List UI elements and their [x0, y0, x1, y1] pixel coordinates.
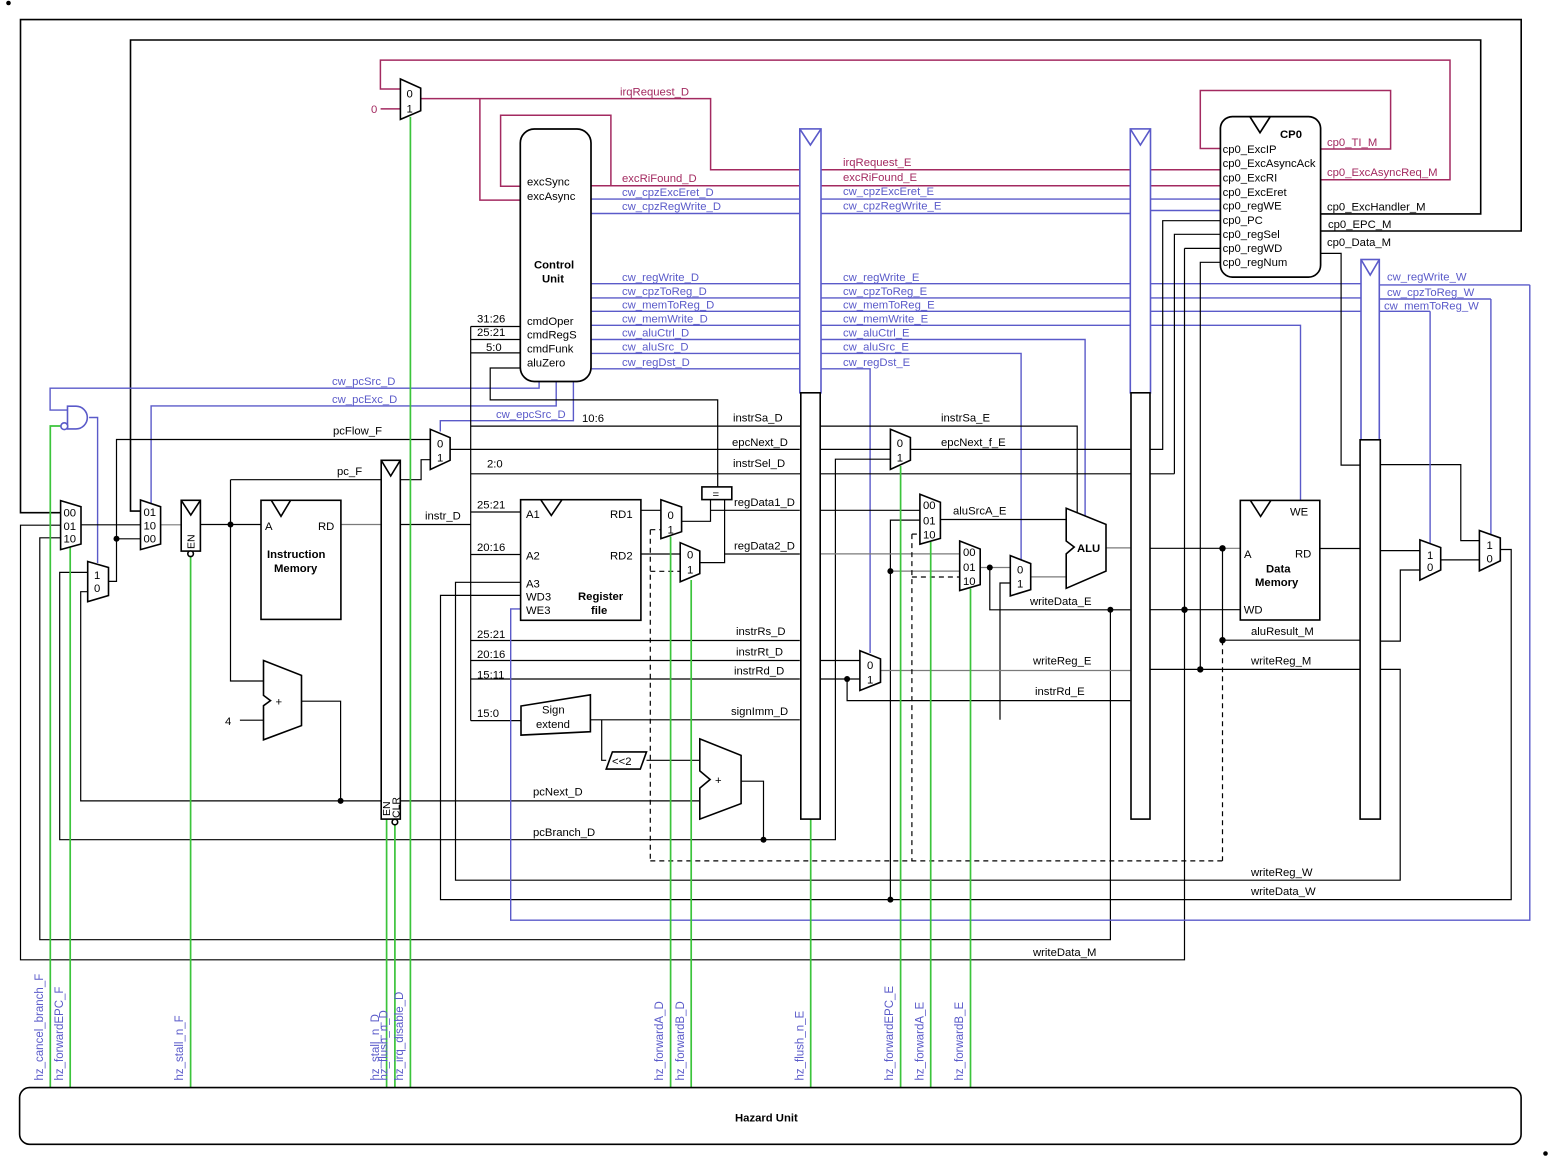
svg-text:writeData_W: writeData_W [1250, 886, 1316, 898]
svg-text:excAsync: excAsync [527, 191, 576, 203]
svg-text:15:11: 15:11 [477, 670, 504, 682]
svg-text:cp0_ExcIP: cp0_ExcIP [1223, 144, 1277, 156]
wire aluSrcA_E mux output to ALU [940, 519, 1066, 521]
svg-text:<<2: <<2 [612, 756, 631, 768]
svg-text:cw_regWrite_D: cw_regWrite_D [622, 272, 699, 284]
svg-text:hz_forwardA_E: hz_forwardA_E [914, 1002, 926, 1081]
shift left 2 [606, 752, 646, 769]
wire ALU output to E/M register [1106, 547, 1130, 549]
wire hz_forwardB_D green [690, 580, 692, 1088]
svg-text:instrRs_D: instrRs_D [736, 626, 786, 638]
mux pc source 00 01 10 [61, 501, 81, 550]
svg-text:excRiFound_E: excRiFound_E [843, 172, 918, 184]
svg-text:excRiFound_D: excRiFound_D [622, 173, 697, 185]
svg-text:cp0_Data_M: cp0_Data_M [1327, 237, 1391, 249]
register file [521, 500, 641, 621]
svg-text:A3: A3 [526, 578, 540, 590]
svg-text:+: + [715, 775, 722, 787]
wire writeReg_M to M/W register with riser to cp0_regNum [1151, 668, 1362, 670]
wire cp0_ExcHandler_M loop to PC mux [131, 40, 1481, 511]
mux cpzToReg 1 0 [1479, 531, 1500, 571]
D/E pipeline register exception part [800, 129, 821, 393]
wire instrRd_E into regDst mux and to E/M register [821, 678, 860, 680]
svg-text:Control: Control [534, 260, 574, 272]
svg-text:cw_epcSrc_D: cw_epcSrc_D [496, 409, 566, 421]
svg-text:RD: RD [318, 521, 334, 533]
svg-text:instr_D: instr_D [425, 510, 461, 522]
wire exc mux output to PC register [161, 524, 182, 526]
svg-text:25:21: 25:21 [477, 629, 505, 641]
svg-text:cw_cpzExcEret_D: cw_cpzExcEret_D [622, 187, 714, 199]
svg-text:cp0_regSel: cp0_regSel [1223, 229, 1280, 241]
PC register [181, 500, 200, 556]
svg-text:instrSa_E: instrSa_E [941, 413, 990, 425]
wire writeReg_W from M/W register back to register file A3 [456, 582, 1401, 880]
wire hz_stall_n_F green [190, 557, 192, 1088]
svg-text:ALU: ALU [1077, 543, 1100, 555]
wire instruction memory RD to F/D register [341, 524, 381, 526]
svg-text:writeReg_M: writeReg_M [1250, 656, 1311, 668]
svg-text:1: 1 [407, 104, 413, 116]
wire register file A1 tap 25:21 [471, 511, 521, 513]
wire instrRs_D tap 25:21 [471, 640, 800, 642]
svg-text:cw_aluSrc_E: cw_aluSrc_E [843, 342, 909, 354]
wire cw_cpzToReg D/E/M stages [591, 297, 800, 299]
svg-text:cmdRegS: cmdRegS [527, 330, 577, 342]
svg-text:cw_regDst_E: cw_regDst_E [843, 357, 911, 369]
F/D pipeline register [381, 460, 400, 825]
mux pc exception 01 10 00 [141, 500, 161, 550]
svg-text:pc_F: pc_F [337, 466, 362, 478]
svg-text:1: 1 [897, 452, 903, 464]
svg-text:Memory: Memory [274, 563, 318, 575]
wire cp0_ExcAsyncReq_M loop to irq mux [380, 60, 1450, 180]
wire cp0_Data_M from CP0 to M/W register [1321, 253, 1361, 465]
wire cw_cpzExcEret_D [591, 198, 800, 200]
svg-text:aluSrcA_E: aluSrcA_E [953, 506, 1007, 518]
wire hz_forwardB_E green [970, 589, 972, 1088]
wire instrRt_D tap 20:16 [471, 660, 800, 662]
svg-text:cp0_ExcAsyncAck: cp0_ExcAsyncAck [1223, 158, 1316, 170]
svg-text:irqRequest_D: irqRequest_D [620, 87, 689, 99]
wire signImm_E riser into operand mux input 1 [1000, 583, 1010, 720]
svg-text:01: 01 [64, 521, 77, 533]
wire cp0_EPC_M loop to PC mux [21, 20, 1522, 513]
mux memToReg 1 0 [1420, 540, 1441, 580]
artifact dot top left [6, 1, 11, 6]
svg-text:20:16: 20:16 [477, 542, 505, 554]
mux forwardA decode 0 1 [661, 500, 682, 539]
svg-text:cp0_EPC_M: cp0_EPC_M [1328, 219, 1391, 231]
svg-text:aluZero: aluZero [527, 357, 565, 369]
wire instruction bus vertical [470, 327, 472, 721]
svg-text:0: 0 [1427, 562, 1433, 574]
wire hz_flush_n_E green [810, 819, 812, 1088]
mux pc branch 1 0 [88, 562, 109, 602]
wire RD1 into forwardA mux [641, 509, 661, 511]
svg-text:15:0: 15:0 [477, 708, 499, 720]
wire memory data W into memToReg mux input 1 [1379, 550, 1420, 552]
wire Data Memory RD to M/W register [1320, 548, 1361, 550]
svg-text:cw_cpzToReg_E: cw_cpzToReg_E [843, 286, 928, 298]
svg-text:hz_cancel_branch_F: hz_cancel_branch_F [34, 974, 46, 1081]
svg-text:instrSa_D: instrSa_D [733, 413, 783, 425]
wire pc through F/D into epc mux input 1 [400, 460, 430, 480]
wire pc_F from PC register to instruction memory, F/D register and +4 adder [200, 524, 261, 526]
svg-text:hz_stall_n_F: hz_stall_n_F [174, 1015, 186, 1080]
svg-text:A2: A2 [526, 551, 540, 563]
svg-text:Memory: Memory [1255, 577, 1299, 589]
svg-text:4: 4 [225, 716, 231, 728]
wire shifter output to branch adder [647, 759, 700, 761]
svg-text:cw_memToReg_E: cw_memToReg_E [843, 300, 935, 312]
svg-text:CP0: CP0 [1280, 129, 1302, 141]
svg-text:1: 1 [94, 570, 100, 582]
svg-text:10: 10 [144, 520, 157, 532]
svg-text:Sign: Sign [542, 705, 565, 717]
E/M pipeline register [1131, 393, 1150, 819]
svg-text:A1: A1 [526, 509, 540, 521]
svg-text:1: 1 [687, 565, 693, 577]
svg-text:0: 0 [1487, 553, 1493, 565]
wire hz_forwardEPC_F green [69, 504, 71, 1088]
svg-text:hz_forwardEPC_E: hz_forwardEPC_E [884, 986, 896, 1081]
wire cw_cpzRegWrite_E to cp0_regWE [821, 213, 1130, 215]
svg-text:cp0_regWD: cp0_regWD [1223, 243, 1283, 255]
svg-text:RD: RD [1295, 549, 1311, 561]
wire NAND output to pcFlow mux select [89, 418, 98, 564]
wire irqRequest_E to CP0 [821, 169, 1130, 171]
svg-text:0: 0 [407, 89, 413, 101]
wire aluResult_W into memToReg mux input 0 [1379, 570, 1420, 641]
wire instrSel_D 2:0 to cp0_regSel [471, 473, 1175, 475]
wire cw_regDst D/E and riser into regDst mux [591, 368, 800, 370]
svg-text:cp0_ExcRI: cp0_ExcRI [1223, 173, 1278, 185]
svg-text:RD2: RD2 [610, 551, 633, 563]
svg-text:cw_cpzToReg_W: cw_cpzToReg_W [1387, 287, 1475, 299]
svg-text:pcFlow_F: pcFlow_F [333, 426, 382, 438]
wire epc pc-mux output to exc mux input 10 [81, 524, 141, 526]
svg-text:CLR: CLR [391, 797, 403, 818]
D/E pipeline register [801, 393, 820, 819]
wire RD2 into forwardB mux [641, 553, 680, 555]
wire cw_cpzExcEret_E to cp0_ExcEret [821, 198, 1130, 200]
svg-text:cw_regWrite_W: cw_regWrite_W [1387, 272, 1467, 284]
svg-text:instrRt_D: instrRt_D [736, 647, 783, 659]
svg-text:WE3: WE3 [526, 605, 550, 617]
svg-text:hz_flush_n_D: hz_flush_n_D [379, 1010, 391, 1080]
wire regData2_D from forwardB mux to D/E register and comparator [700, 500, 725, 563]
wire cw_epcSrc_D from control unit bottom to epc mux select [440, 382, 573, 432]
M/W pipeline register [1360, 440, 1380, 819]
svg-text:cw_pcSrc_D: cw_pcSrc_D [332, 376, 395, 388]
wire cw_aluSrc D/E and riser into aluSrcB mux [591, 352, 800, 354]
svg-text:cw_aluCtrl_D: cw_aluCtrl_D [622, 328, 689, 340]
wire cmdOper tap 31:26 [471, 326, 521, 328]
wire excRiFound_D from control unit to D/E register and loop to excSync [591, 185, 800, 187]
svg-text:00: 00 [64, 508, 77, 520]
wire operand mux output to ALU [1031, 576, 1067, 578]
svg-text:10:6: 10:6 [582, 413, 604, 425]
svg-text:hz_forwardA_D: hz_forwardA_D [654, 1001, 666, 1080]
svg-text:excSync: excSync [527, 177, 570, 189]
svg-text:0: 0 [437, 439, 443, 451]
svg-text:hz_forwardB_D: hz_forwardB_D [675, 1001, 687, 1080]
wire irqRequest_D from mux to D/E register and control unit excAsync [421, 99, 800, 170]
wire writeback forward riser into aluSrcA and aluSrcB muxes [890, 520, 920, 900]
wire epcNext_D from epc mux to D/E register [450, 448, 800, 450]
svg-text:aluResult_M: aluResult_M [1251, 626, 1314, 638]
svg-text:1: 1 [867, 675, 873, 687]
svg-text:=: = [713, 489, 720, 501]
svg-text:cw_cpzRegWrite_E: cw_cpzRegWrite_E [843, 201, 942, 213]
svg-text:1: 1 [668, 525, 674, 537]
svg-text:hz_forwardEPC_F: hz_forwardEPC_F [54, 987, 66, 1081]
wire epcNext_f_M to cp0_PC [1151, 221, 1221, 450]
wire register file A2 tap 20:16 [471, 554, 521, 556]
instruction memory [261, 500, 341, 619]
svg-text:cw_aluCtrl_E: cw_aluCtrl_E [843, 328, 910, 340]
wire aluZero from comparator to control unit [490, 368, 718, 487]
wire instrRt_E into regDst mux [821, 660, 860, 662]
svg-text:cw_pcExc_D: cw_pcExc_D [332, 394, 397, 406]
wire cw_aluCtrl D/E and riser into ALU [591, 339, 800, 341]
svg-text:regData2_D: regData2_D [734, 541, 795, 553]
wire cmdFunk tap 5:0 [471, 352, 521, 354]
svg-text:cw_cpzToReg_D: cw_cpzToReg_D [622, 286, 707, 298]
wire writeData_M to Data Memory WD with riser to cp0_regWD [1151, 609, 1241, 611]
wire writeData_W from final mux back to register file WD3 [441, 550, 1512, 900]
svg-text:A: A [1244, 549, 1252, 561]
wire cw_pcSrc_D from control unit bottom to NAND gate [50, 382, 539, 411]
comparator = [702, 487, 732, 500]
M/W pipeline register control part [1361, 260, 1379, 440]
svg-text:WE: WE [1290, 507, 1309, 519]
svg-text:cw_aluSrc_D: cw_aluSrc_D [622, 342, 689, 354]
data memory [1240, 500, 1320, 620]
svg-text:cw_memToReg_W: cw_memToReg_W [1384, 301, 1479, 313]
wire cw_regWrite_W return to register file WE3 [1379, 284, 1530, 286]
svg-text:10: 10 [64, 534, 77, 546]
svg-text:instrRd_E: instrRd_E [1035, 686, 1085, 698]
ALU [1066, 508, 1106, 588]
branch adder [700, 739, 741, 819]
svg-text:25:21: 25:21 [477, 327, 505, 339]
wire hz_forwardA_E green [930, 542, 932, 1088]
svg-text:cw_regDst_D: cw_regDst_D [622, 357, 690, 369]
svg-text:00: 00 [923, 500, 936, 512]
wire regData1_E into aluSrcA mux [821, 509, 920, 511]
wire hz_stall_n_D green [386, 819, 388, 1088]
sign extend [521, 695, 590, 735]
svg-text:00: 00 [144, 534, 157, 546]
svg-text:cw_cpzExcEret_E: cw_cpzExcEret_E [843, 186, 935, 198]
svg-text:00: 00 [963, 547, 976, 559]
svg-text:cw_memWrite_D: cw_memWrite_D [622, 313, 708, 325]
wire aluSrcB mux output to operand mux and writeData_E [980, 567, 1010, 569]
svg-text:writeData_E: writeData_E [1029, 596, 1092, 608]
control unit [520, 129, 591, 382]
svg-text:instrRd_D: instrRd_D [734, 666, 784, 678]
wire pcBranch_D to branch mux and epcNext mux [60, 459, 891, 840]
svg-text:cw_cpzRegWrite_D: cw_cpzRegWrite_D [622, 201, 721, 213]
svg-text:1: 1 [1017, 578, 1023, 590]
svg-text:01: 01 [963, 562, 976, 574]
svg-text:2:0: 2:0 [487, 459, 503, 471]
svg-text:0: 0 [668, 510, 674, 522]
svg-text:0: 0 [897, 438, 903, 450]
svg-text:31:26: 31:26 [477, 314, 505, 326]
svg-text:cp0_ExcHandler_M: cp0_ExcHandler_M [1327, 202, 1426, 214]
wire writeReg_E from regDst mux to E/M register [881, 670, 1131, 672]
wire hz_cancel_branch_F green [50, 426, 61, 1088]
svg-text:cmdFunk: cmdFunk [527, 343, 574, 355]
svg-text:Hazard Unit: Hazard Unit [735, 1113, 798, 1125]
wire PC register EN green [190, 556, 192, 558]
wire epcNext_E into epcNext_f mux [821, 448, 890, 450]
wire aluResult_M to Data Memory A and down to aluResult tap [1151, 547, 1223, 549]
svg-text:10: 10 [923, 529, 936, 541]
mux regDst 0 1 [860, 651, 881, 691]
svg-text:0: 0 [1017, 565, 1023, 577]
wire instr_D from F/D register to instruction bus [400, 524, 470, 526]
svg-text:pcNext_D: pcNext_D [533, 787, 583, 799]
plus-4 adder [264, 661, 302, 740]
svg-text:01: 01 [144, 507, 157, 519]
wire pcNext_D from +4 adder to branch mux and branch adder [81, 592, 700, 801]
svg-text:25:21: 25:21 [477, 499, 505, 511]
E/M pipeline register exception part [1130, 129, 1150, 393]
svg-text:irqRequest_E: irqRequest_E [843, 157, 912, 169]
wire cw_cpzRegWrite_D [591, 213, 800, 215]
svg-text:cp0_TI_M: cp0_TI_M [1327, 137, 1377, 149]
svg-text:1: 1 [1487, 540, 1493, 552]
svg-text:Data: Data [1266, 564, 1291, 576]
NAND gate [61, 406, 87, 429]
svg-text:WD3: WD3 [526, 591, 551, 603]
wire signImm tap 15:0 into sign extend [471, 720, 521, 722]
wire pcFlow_F from branch mux to pc mux and epc mux [109, 440, 431, 582]
hazard unit [20, 1088, 1522, 1145]
wire signImm_D from sign extend to D/E register and shifter [590, 719, 799, 721]
wire branch adder output into pcBranch_D [741, 781, 763, 840]
svg-text:01: 01 [923, 516, 936, 528]
CP0 [1220, 117, 1320, 278]
svg-text:writeReg_W: writeReg_W [1250, 867, 1313, 879]
mux epcNext_f 0 1 [890, 429, 910, 469]
svg-text:Register: Register [578, 591, 624, 603]
svg-text:hz_irq_disable_D: hz_irq_disable_D [394, 992, 406, 1081]
svg-text:writeData_M: writeData_M [1032, 947, 1096, 959]
wire epcNext_f_E from mux to E/M register [910, 448, 1130, 450]
mux epcNext 0 1 [430, 429, 450, 469]
svg-text:cp0_PC: cp0_PC [1223, 215, 1263, 227]
svg-text:cmdOper: cmdOper [527, 316, 574, 328]
mux forwardB decode 0 1 [680, 543, 700, 582]
wire cp0_Data_W to final mux input 1 [1379, 465, 1479, 541]
wire cw_cpzToReg_W to final mux select [1379, 298, 1491, 300]
svg-text:cw_regWrite_E: cw_regWrite_E [843, 272, 920, 284]
svg-text:file: file [591, 605, 607, 617]
wire cp0_TI_M loop to cp0_ExcIP [1200, 91, 1390, 150]
svg-text:0: 0 [687, 550, 693, 562]
svg-text:extend: extend [536, 719, 570, 731]
mux aluSrcB forward 00 01 10 [960, 541, 981, 591]
dashed forward net from aluResult_M to forward muxes [650, 530, 1222, 861]
wire writeData_E return to pc mux input 10 [40, 538, 1111, 940]
wire cw_regWrite D/E/M stages [591, 283, 800, 285]
wire memToReg mux output to final mux input 0 [1441, 559, 1480, 561]
svg-text:instrSel_D: instrSel_D [733, 458, 785, 470]
svg-text:20:16: 20:16 [477, 649, 505, 661]
wire writeData_M return to pc mux input 01 [21, 525, 1185, 960]
wire writeData_E branch down to PC mux return [1107, 607, 1113, 613]
svg-text:signImm_D: signImm_D [731, 706, 788, 718]
svg-text:writeReg_E: writeReg_E [1032, 656, 1092, 668]
svg-text:hz_flush_n_E: hz_flush_n_E [794, 1010, 806, 1080]
svg-text:0: 0 [867, 660, 873, 672]
wire hz_forwardEPC_E green [900, 466, 902, 1088]
svg-text:0: 0 [94, 583, 100, 595]
wire constant 4 into +4 adder [240, 719, 264, 721]
mux irq select [400, 79, 420, 119]
svg-text:WD: WD [1244, 605, 1263, 617]
svg-text:cp0_ExcEret: cp0_ExcEret [1223, 187, 1288, 199]
wire regData2_E into aluSrcB mux [821, 553, 960, 555]
wire hz_forwardA_D green [670, 537, 672, 1088]
svg-text:cw_memToReg_D: cw_memToReg_D [622, 300, 714, 312]
mux aluSrcA 00 01 10 [920, 494, 941, 544]
artifact dot bottom right [1543, 1151, 1548, 1156]
wire cw_memToReg_W to memToReg mux select [1379, 310, 1430, 312]
svg-text:cw_memWrite_E: cw_memWrite_E [843, 313, 929, 325]
svg-text:epcNext_f_E: epcNext_f_E [941, 437, 1006, 449]
svg-text:cp0_regNum: cp0_regNum [1223, 257, 1288, 269]
svg-text:0: 0 [371, 104, 377, 116]
wire regData1_D from forwardA mux to D/E register and comparator [682, 500, 711, 522]
svg-text:10: 10 [963, 576, 976, 588]
svg-text:+: + [276, 696, 283, 708]
svg-text:regData1_D: regData1_D [734, 497, 795, 509]
wire excRiFound_E to CP0 [821, 185, 1130, 187]
wire constant 0 into irq mux input 1 [381, 108, 401, 110]
svg-text:1: 1 [437, 453, 443, 465]
svg-text:pcBranch_D: pcBranch_D [533, 827, 595, 839]
wire cw_memToReg D/E/M stages [591, 310, 800, 312]
mux operand B 0 1 [1010, 556, 1030, 596]
svg-text:1: 1 [1427, 550, 1433, 562]
svg-text:A: A [265, 521, 273, 533]
wire hz_flush_n_D green [394, 825, 396, 1088]
wire cw_memWrite D/E stages and riser to Data Memory WE [591, 324, 800, 326]
wire cw_pcExc_D from control unit bottom to pc mux select [151, 382, 556, 504]
svg-text:epcNext_D: epcNext_D [732, 437, 788, 449]
svg-text:Instruction: Instruction [267, 549, 325, 561]
wire instrRd_D tap 15:11 [471, 678, 800, 680]
wire hz_irq_disable_D green [409, 117, 411, 1088]
svg-text:RD1: RD1 [610, 509, 633, 521]
svg-text:cp0_ExcAsyncReq_M: cp0_ExcAsyncReq_M [1327, 167, 1438, 179]
wire cmdRegS tap 25:21 [471, 339, 521, 341]
svg-text:Unit: Unit [542, 274, 564, 286]
svg-text:5:0: 5:0 [486, 342, 502, 354]
wire aluResult_M to M/W register [1223, 639, 1362, 641]
svg-text:hz_forwardB_E: hz_forwardB_E [954, 1002, 966, 1081]
svg-text:cp0_regWE: cp0_regWE [1223, 201, 1282, 213]
wire instrSa_D tap 10:6 to ALU shift amount [471, 426, 1077, 513]
svg-text:EN: EN [186, 534, 198, 549]
